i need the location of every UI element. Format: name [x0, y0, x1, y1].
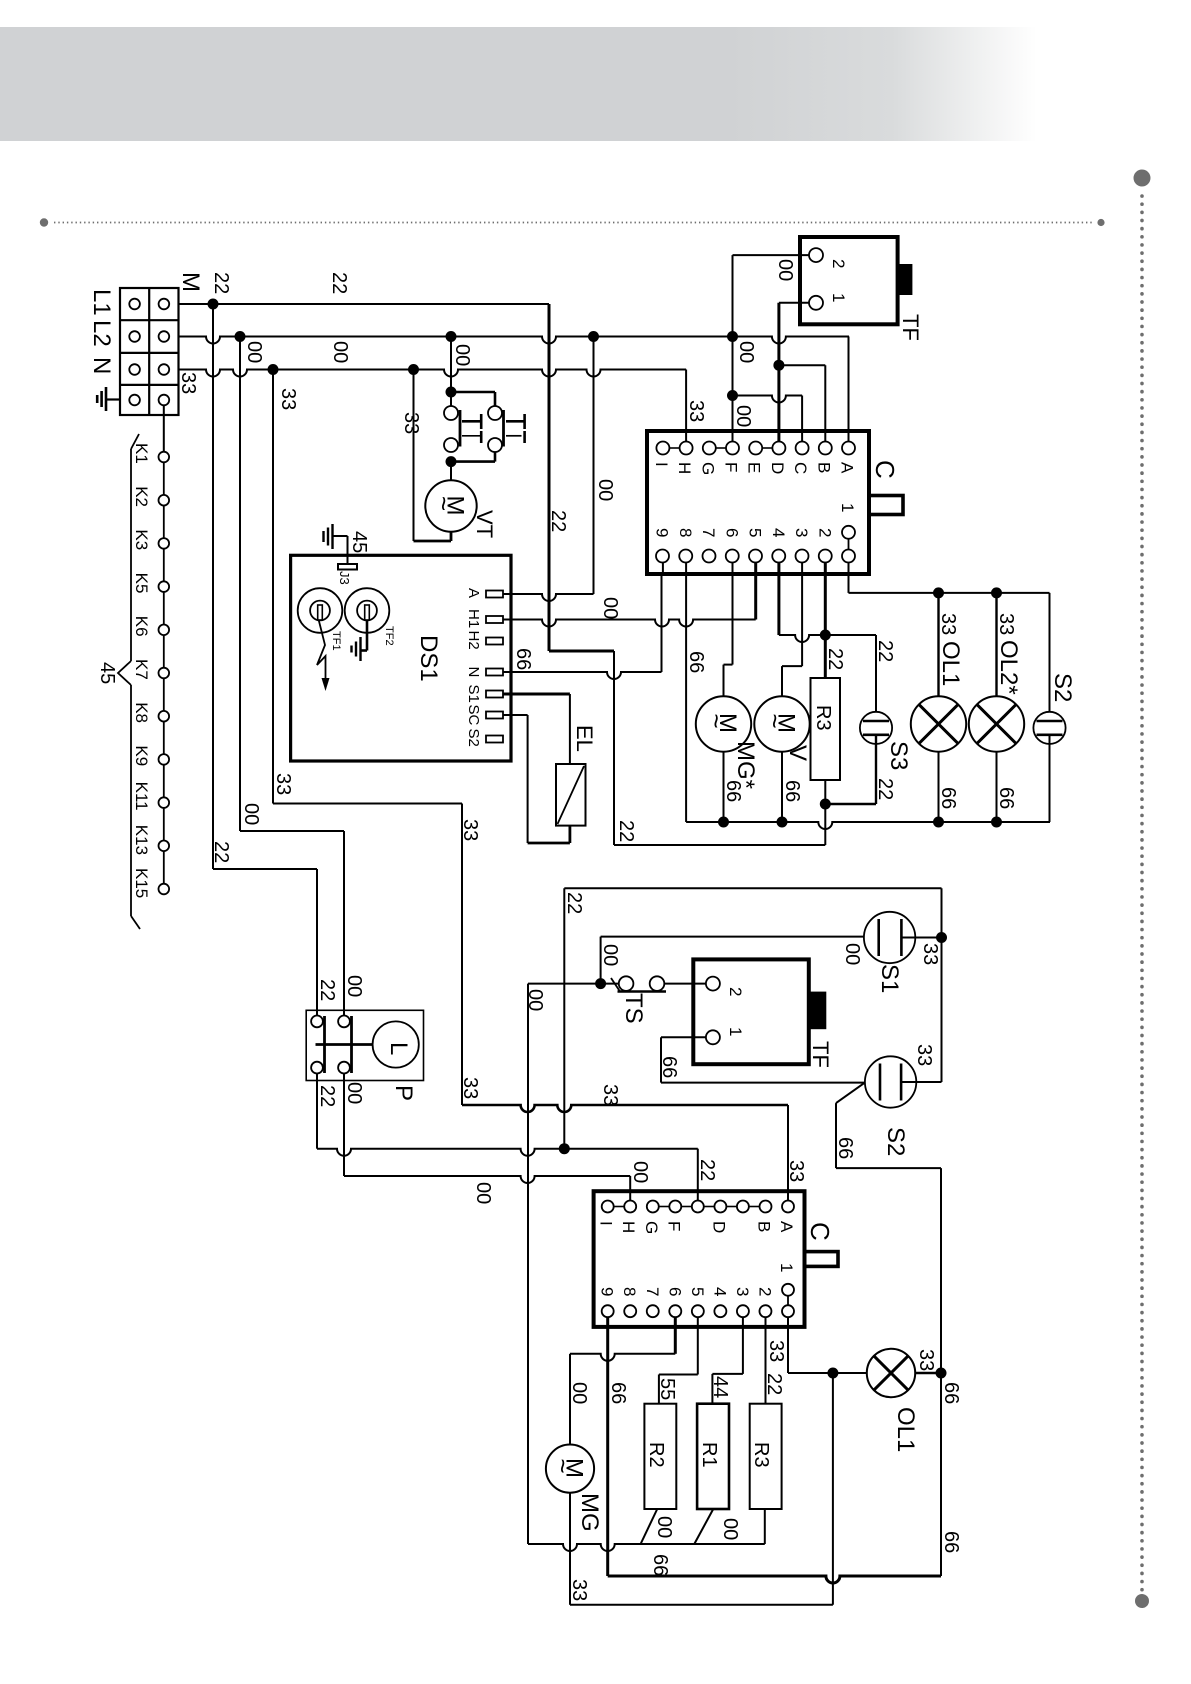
- svg-text:44: 44: [709, 1376, 731, 1398]
- wire J3 to ground: [333, 536, 348, 564]
- wire pin5 55 to R2: [659, 1317, 698, 1404]
- pin C-lower 6: [665, 1287, 684, 1317]
- K strip bracket: [118, 434, 140, 929]
- wire 33 into pin H: [685, 370, 687, 442]
- svg-text:6: 6: [665, 1287, 684, 1296]
- svg-text:22: 22: [615, 820, 637, 842]
- fuse TF2: [345, 588, 390, 633]
- label 66 diag: [834, 1137, 856, 1159]
- svg-text:00: 00: [599, 597, 621, 619]
- wire DS1 SC to EL: [503, 715, 570, 843]
- label 00 bus d: [451, 344, 473, 366]
- svg-text:66: 66: [685, 651, 707, 673]
- pin C-upper 7: [699, 528, 718, 563]
- spark arrow TF1: [317, 620, 330, 691]
- svg-text:33: 33: [937, 613, 959, 635]
- wire 00 bus L2: [179, 337, 850, 344]
- wire S2 lower right: [901, 1081, 941, 1083]
- svg-text:H2: H2: [465, 631, 482, 650]
- svg-text:S2: S2: [1049, 673, 1076, 702]
- pin DS1 N: [465, 667, 503, 678]
- svg-text:K6: K6: [132, 616, 151, 637]
- svg-text:K7: K7: [132, 659, 151, 680]
- wire VT return: [408, 364, 451, 541]
- svg-text:66: 66: [722, 780, 744, 802]
- svg-text:N: N: [88, 357, 115, 374]
- label 22 P bottom: [316, 1085, 338, 1107]
- wire P 00 bottom: [343, 1074, 345, 1177]
- lamp L: [373, 1021, 419, 1067]
- svg-text:MG: MG: [576, 1493, 603, 1532]
- label 33 OL1 lower: [915, 1349, 937, 1371]
- wire TT feed: [450, 337, 452, 407]
- svg-text:OL1: OL1: [937, 641, 964, 686]
- wire pin9 stub: [662, 563, 664, 576]
- label 00 MG: [568, 1382, 590, 1404]
- svg-text:22: 22: [563, 892, 585, 914]
- pin C-upper 3: [792, 528, 811, 563]
- label 22 R3: [824, 648, 846, 670]
- svg-text:C: C: [805, 1222, 835, 1241]
- wire pin9 66: [608, 1317, 941, 1583]
- label OL1 lower: [892, 1407, 919, 1452]
- svg-text:00: 00: [841, 943, 863, 965]
- label L2: [88, 320, 115, 347]
- label L1: [88, 289, 115, 316]
- wire DS1 N to pin9: [503, 575, 662, 679]
- svg-text:00: 00: [732, 405, 754, 427]
- terminal K1: [132, 443, 169, 464]
- node F tie: [727, 390, 738, 401]
- label VT: [472, 510, 497, 538]
- label N: [88, 357, 115, 374]
- label 33 pin H: [685, 400, 707, 422]
- svg-text:1: 1: [777, 1263, 796, 1272]
- svg-text:R3: R3: [812, 705, 834, 731]
- svg-text:K2: K2: [132, 486, 151, 507]
- node TF1-B link: [773, 360, 784, 371]
- pin DS1 S1: [465, 685, 503, 703]
- wire DS1 S1 to EL: [503, 694, 570, 764]
- label M: [177, 272, 204, 292]
- gray header banner: [0, 27, 1037, 141]
- svg-text:00: 00: [240, 803, 262, 825]
- pin C-upper 2: [815, 528, 834, 563]
- node OL2 top: [991, 587, 1002, 598]
- node TS feed: [595, 978, 606, 989]
- svg-text:K11: K11: [132, 782, 151, 811]
- svg-text:00: 00: [629, 1161, 651, 1183]
- ground symbol TF2: [352, 637, 361, 661]
- svg-text:9: 9: [653, 528, 672, 537]
- svg-text:00: 00: [524, 989, 546, 1011]
- svg-text:00: 00: [735, 341, 757, 363]
- svg-text:B: B: [755, 1221, 774, 1232]
- svg-text:33: 33: [995, 613, 1017, 635]
- pin C-lower 2: [755, 1287, 774, 1317]
- module TF lower tab: [809, 992, 827, 1030]
- svg-text:22: 22: [696, 1159, 718, 1181]
- pin C-upper B: [814, 442, 833, 474]
- svg-text:33: 33: [599, 1084, 621, 1106]
- label 00 bus b: [329, 341, 351, 363]
- svg-text:K13: K13: [132, 825, 151, 855]
- symbol TT thermal element right: [506, 414, 525, 443]
- node 22 lower junction: [559, 1143, 570, 1154]
- tie F-E lower: [681, 1206, 692, 1208]
- tie D-C lower: [726, 1206, 737, 1208]
- terminal K15: [132, 868, 169, 898]
- pin TF-lower 2: [706, 977, 745, 997]
- svg-text:1: 1: [838, 503, 857, 512]
- label 66 right drop b: [940, 1531, 962, 1553]
- svg-text:I: I: [652, 462, 671, 467]
- wire pin4 to R3 node: [779, 563, 825, 643]
- svg-text:R1: R1: [698, 1442, 720, 1468]
- wire MG* bottom: [723, 752, 725, 822]
- svg-text:H: H: [675, 462, 694, 474]
- label 22 R3 lower: [763, 1373, 785, 1395]
- jumper J3: [337, 564, 357, 585]
- svg-text:22: 22: [316, 1085, 338, 1107]
- svg-text:45: 45: [96, 662, 118, 684]
- tie E-D lower: [704, 1206, 715, 1208]
- label 22 bus b: [328, 272, 350, 294]
- node L1 junction: [208, 299, 219, 310]
- label TF upper: [898, 314, 923, 341]
- node L2 junction: [235, 331, 246, 342]
- pin TF-upper 1: [809, 293, 848, 310]
- svg-text:DS1: DS1: [415, 635, 442, 682]
- pin C-lower 9: [598, 1287, 617, 1317]
- wire 22 lower link: [564, 888, 941, 1148]
- tie G-F lower: [659, 1206, 670, 1208]
- label 33 right drop a: [272, 773, 294, 795]
- wire TS right: [664, 983, 706, 985]
- wire pin5 stub: [754, 563, 757, 620]
- svg-text:00: 00: [599, 944, 621, 966]
- node N junction: [268, 364, 279, 375]
- label 66 OL1: [937, 787, 959, 809]
- wire V bottom: [781, 752, 783, 822]
- svg-text:F: F: [722, 462, 741, 472]
- wire S2 bottom: [1049, 735, 1051, 822]
- label S2 lower: [882, 1127, 909, 1156]
- svg-text:S2: S2: [465, 729, 482, 747]
- svg-text:~: ~: [702, 714, 732, 729]
- label 22 S3 bottom: [874, 778, 896, 800]
- wire pin1 33 to OL1: [788, 1317, 867, 1373]
- pin C-lower 8: [620, 1287, 639, 1317]
- svg-text:4: 4: [710, 1287, 729, 1296]
- contact P right: [338, 1016, 351, 1074]
- switch S2 lower: [865, 1056, 916, 1107]
- svg-text:E: E: [745, 462, 764, 473]
- wire TT to VT: [450, 461, 452, 480]
- ground wire to K strip: [163, 405, 165, 457]
- label 00 left drop: [240, 803, 262, 825]
- svg-text:00: 00: [594, 479, 616, 501]
- label 22 main drop b: [615, 820, 637, 842]
- lamp OL1 upper: [911, 696, 966, 751]
- label 66 bottom: [649, 1554, 671, 1576]
- label 00 P top: [343, 975, 365, 997]
- connector C upper box: [647, 431, 869, 574]
- svg-text:F: F: [664, 1221, 683, 1231]
- svg-text:3: 3: [733, 1287, 752, 1296]
- wire pin2 to R3: [824, 563, 827, 679]
- module TF lower box: [693, 959, 809, 1064]
- svg-text:7: 7: [643, 1287, 662, 1296]
- svg-text:33: 33: [685, 400, 707, 422]
- label 66 MG*: [722, 780, 744, 802]
- label 00 R2: [653, 1516, 675, 1538]
- svg-text:33: 33: [919, 943, 941, 965]
- wire 00 resistor rail: [528, 1509, 765, 1551]
- svg-text:V: V: [784, 745, 811, 761]
- label R3 lower: [750, 1442, 772, 1468]
- wire 66 right drop: [940, 1168, 942, 1576]
- pin C-lower E: [692, 1201, 704, 1213]
- tie I-H upper: [669, 447, 679, 449]
- tie E-D upper: [762, 447, 772, 449]
- label 22 main drop a: [547, 510, 569, 532]
- svg-text:33: 33: [459, 1077, 481, 1099]
- svg-text:S1: S1: [876, 964, 903, 993]
- pin C-lower D: [709, 1201, 728, 1234]
- terminal K3: [132, 529, 169, 550]
- label 22 bus a: [210, 272, 232, 294]
- svg-text:K15: K15: [132, 868, 151, 898]
- actuator bar P: [316, 1043, 373, 1046]
- svg-text:22: 22: [874, 778, 896, 800]
- wire 22 bus L1: [179, 303, 550, 305]
- label 22 P top: [316, 979, 338, 1001]
- label 66 TF1: [658, 1056, 680, 1078]
- label 66 OL2: [995, 787, 1017, 809]
- node TT feed: [446, 331, 457, 342]
- label 33 S2 right: [913, 1044, 935, 1066]
- label S2 upper: [1049, 673, 1076, 702]
- svg-text:00: 00: [343, 975, 365, 997]
- module TF upper tab: [898, 264, 913, 295]
- wire TT top tie: [451, 392, 495, 406]
- wire S3 bottom: [825, 735, 876, 804]
- svg-text:TF2: TF2: [383, 626, 395, 646]
- svg-text:6: 6: [722, 528, 741, 537]
- svg-text:2: 2: [815, 528, 834, 537]
- svg-text:VT: VT: [472, 510, 497, 538]
- svg-text:H1: H1: [465, 609, 482, 628]
- label 00 pin F: [732, 405, 754, 427]
- svg-text:OL1: OL1: [892, 1407, 919, 1452]
- svg-text:I: I: [597, 1221, 616, 1226]
- label 33 right drop b: [459, 819, 481, 841]
- pin C-upper C: [791, 442, 810, 475]
- node TT bottom: [446, 456, 457, 467]
- pin C-lower I: [597, 1201, 616, 1226]
- pin C-lower C: [737, 1201, 749, 1213]
- terminal K6: [132, 616, 169, 637]
- svg-text:7: 7: [699, 528, 718, 537]
- svg-text:33: 33: [459, 819, 481, 841]
- wire OL2 bottom: [991, 752, 1002, 828]
- label 33 VT return: [400, 412, 422, 434]
- label MG: [576, 1493, 603, 1532]
- wire 33 bus N: [179, 370, 687, 377]
- wire 33 down: [832, 1373, 834, 1605]
- pin C-upper A: [838, 442, 857, 475]
- svg-text:2: 2: [755, 1287, 774, 1296]
- svg-text:~: ~: [760, 714, 790, 729]
- svg-text:M: M: [177, 272, 204, 292]
- wire pin6 00 to MG: [570, 1317, 675, 1444]
- label R3 upper: [812, 705, 834, 731]
- svg-text:5: 5: [746, 528, 765, 537]
- svg-text:66: 66: [937, 787, 959, 809]
- label 00 bus c: [735, 341, 757, 363]
- dotted right border: [1140, 196, 1144, 1592]
- wire OL1 lower right: [915, 1372, 941, 1375]
- pin C-upper F: [722, 442, 741, 473]
- svg-text:22: 22: [316, 979, 338, 1001]
- pin C-upper E: [745, 442, 764, 474]
- pin C-upper 9: [653, 528, 672, 563]
- pin C-lower H: [619, 1201, 638, 1234]
- svg-text:P: P: [390, 1085, 417, 1101]
- label 00 TF pin2: [774, 259, 796, 281]
- connector C upper tab: [869, 496, 903, 515]
- terminal K5: [132, 573, 169, 594]
- svg-text:66: 66: [781, 780, 803, 802]
- switch S3: [860, 712, 892, 744]
- label TF lower: [808, 1041, 833, 1068]
- wire 00 into pin A: [848, 337, 850, 442]
- terminal block M: [120, 288, 179, 415]
- svg-text:66: 66: [834, 1137, 856, 1159]
- node TT top: [446, 387, 457, 398]
- svg-text:K1: K1: [132, 443, 151, 464]
- switch S1: [864, 912, 915, 963]
- svg-text:L1: L1: [88, 289, 115, 316]
- svg-text:22: 22: [824, 648, 846, 670]
- wire S1 right: [901, 937, 941, 939]
- wire pin8 to 66bus: [685, 563, 687, 823]
- label 00 pinH lower: [629, 1161, 651, 1183]
- pin C-lower 5: [688, 1287, 707, 1317]
- svg-text:9: 9: [598, 1287, 617, 1296]
- svg-text:J3: J3: [337, 571, 352, 585]
- pin C-lower 4: [710, 1287, 729, 1317]
- module DS1 box: [291, 555, 511, 761]
- svg-text:TF: TF: [898, 314, 923, 341]
- svg-text:8: 8: [620, 1287, 639, 1296]
- lamp OL2*: [969, 696, 1024, 751]
- separator right bullet: [1097, 219, 1104, 226]
- svg-text:G: G: [642, 1221, 661, 1234]
- label 33 pin1: [765, 1340, 787, 1362]
- wire 66 diagonal: [836, 1083, 941, 1169]
- svg-text:33: 33: [785, 1160, 807, 1182]
- pin C-upper D: [768, 442, 787, 475]
- svg-text:00: 00: [329, 341, 351, 363]
- label 00 bus a: [243, 341, 265, 363]
- label 66 DS1: [512, 648, 534, 670]
- motor MG*: [696, 696, 751, 751]
- pin C-upper G: [698, 442, 717, 476]
- pin DS1 H2: [465, 631, 503, 650]
- label 22 S3 top: [874, 640, 896, 662]
- ground symbol 45: [324, 524, 333, 549]
- terminal K11: [132, 782, 169, 811]
- label 66 right drop a: [940, 1382, 962, 1404]
- svg-text:TS: TS: [620, 993, 647, 1024]
- tie G-F upper: [716, 447, 726, 449]
- pin C-lower 1: [777, 1263, 796, 1317]
- motor V: [754, 696, 809, 751]
- svg-text:33: 33: [272, 773, 294, 795]
- svg-text:22: 22: [210, 841, 232, 863]
- svg-text:K3: K3: [132, 529, 151, 550]
- pin C-upper 6: [722, 528, 741, 563]
- pin DS1 H1: [465, 609, 503, 628]
- label 00 TS: [524, 989, 546, 1011]
- svg-text:A: A: [465, 588, 482, 598]
- label S1: [876, 964, 903, 993]
- wire S3 top: [825, 635, 876, 721]
- dotted separator line: [54, 222, 1093, 224]
- svg-text:1: 1: [829, 293, 848, 302]
- label 33 OL2: [995, 613, 1017, 635]
- wire tie F to C: [733, 396, 803, 442]
- label DS1: [415, 635, 442, 682]
- svg-text:1: 1: [726, 1027, 745, 1036]
- wire 33 to pinA lower: [462, 1105, 788, 1200]
- svg-text:G: G: [698, 462, 717, 475]
- motor MG: [546, 1445, 594, 1493]
- label 00 S1 drop: [599, 944, 621, 966]
- wire pin3 to V: [782, 563, 802, 697]
- svg-text:D: D: [768, 462, 787, 474]
- pin C-upper 8: [676, 528, 695, 563]
- svg-text:00: 00: [243, 341, 265, 363]
- node OL1 top: [933, 587, 944, 598]
- node OL1 lower right: [936, 1368, 947, 1379]
- svg-text:SC: SC: [465, 705, 482, 726]
- node V 66: [777, 817, 788, 828]
- contact TT: [444, 406, 504, 452]
- svg-text:33: 33: [277, 388, 299, 410]
- svg-text:5: 5: [688, 1287, 707, 1296]
- terminal K7: [132, 659, 169, 680]
- wire pin1 to lamps: [849, 563, 1050, 593]
- node S1 right: [936, 932, 947, 943]
- svg-text:L2: L2: [88, 320, 115, 347]
- svg-text:00: 00: [472, 1182, 494, 1204]
- label 33 pinA lower: [785, 1160, 807, 1182]
- wire 33 right drop: [273, 370, 462, 1106]
- wire TF1 to pin D: [777, 303, 780, 442]
- label 22 left drop: [210, 841, 232, 863]
- node MG* 66: [718, 817, 729, 828]
- wire pin6 to MG: [724, 563, 733, 697]
- label 66 pin8: [685, 651, 707, 673]
- svg-text:66: 66: [940, 1531, 962, 1553]
- svg-text:R2: R2: [645, 1442, 667, 1468]
- svg-text:33: 33: [568, 1579, 590, 1601]
- svg-text:R3: R3: [750, 1442, 772, 1468]
- pin C-lower 7: [643, 1287, 662, 1317]
